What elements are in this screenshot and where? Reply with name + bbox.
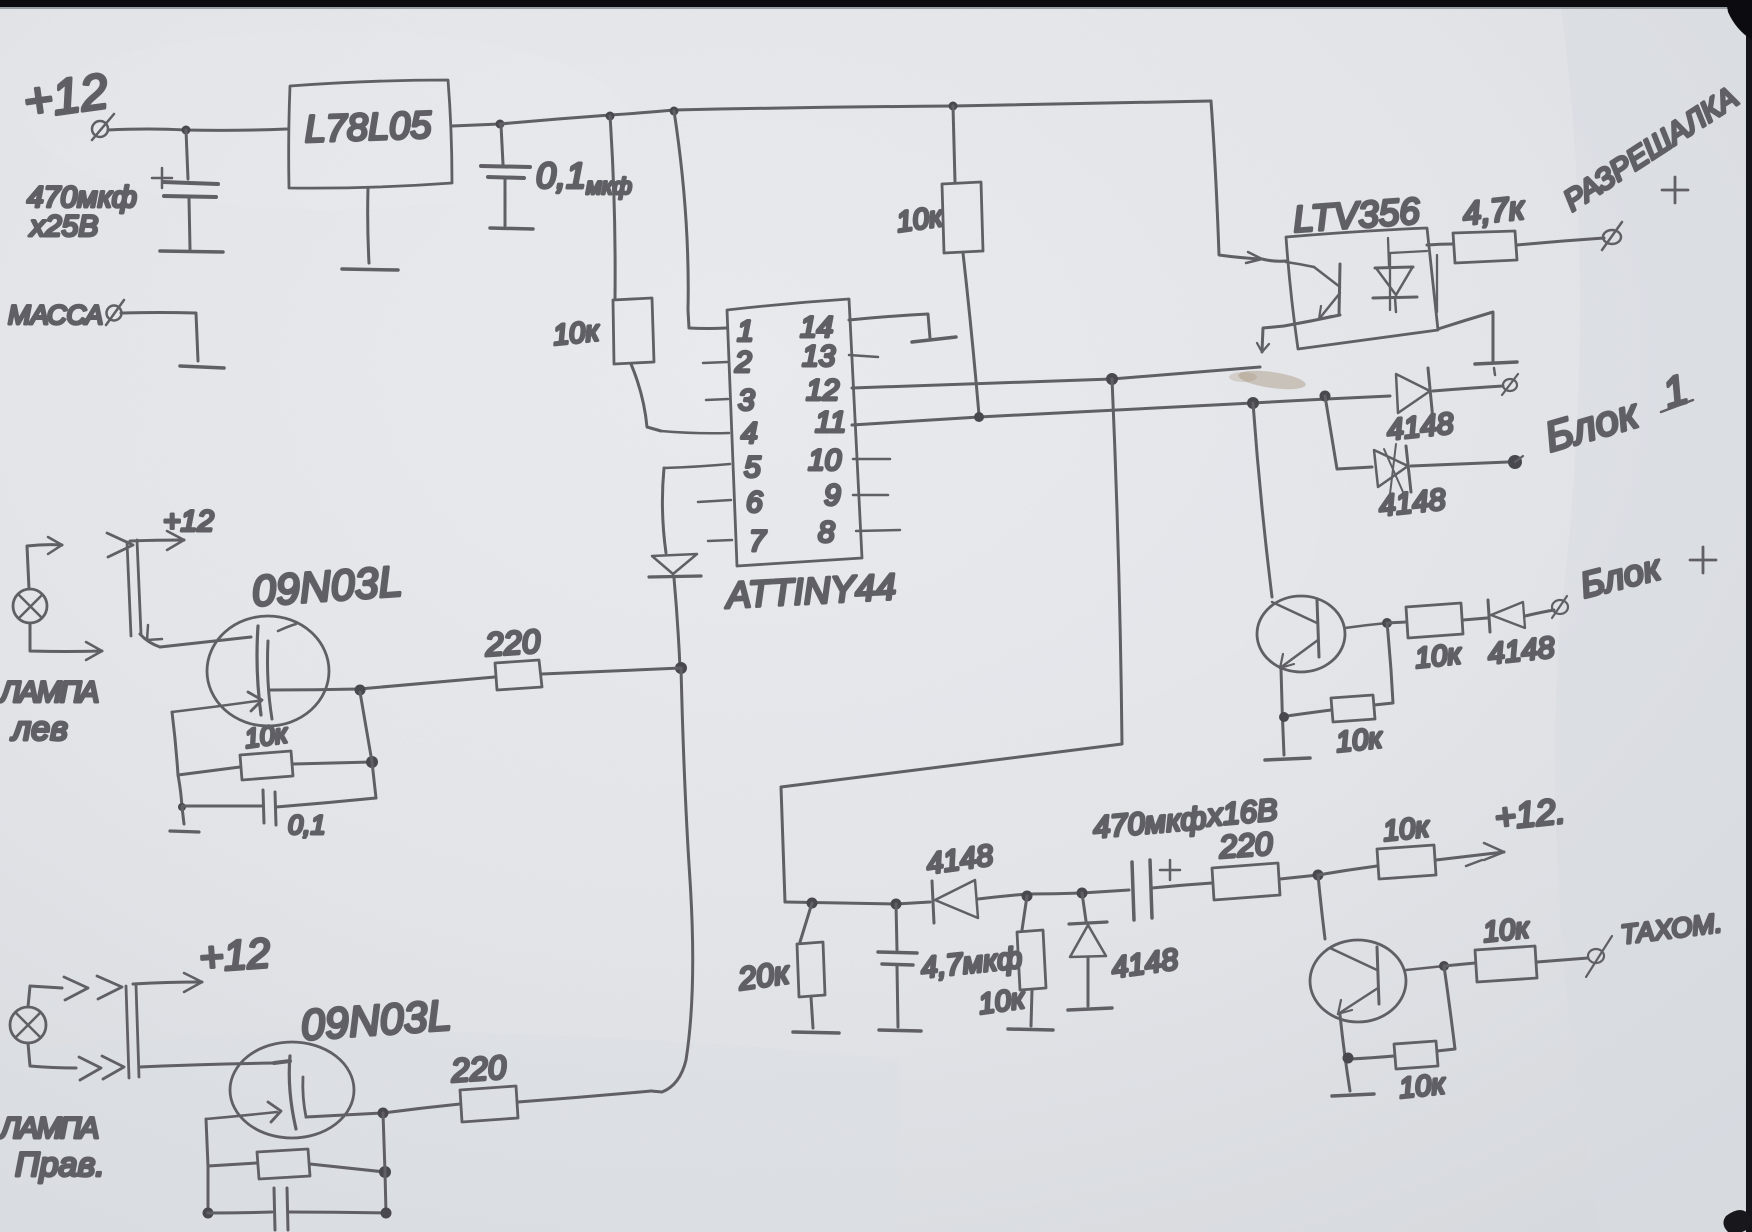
wire D2 to Блок1 terminal b — [1411, 462, 1508, 466]
svg-text:10к: 10к — [895, 201, 946, 239]
resistor R5 10к (Q1 base-emitter) — [1374, 623, 1393, 705]
lamp HL1 (left) — [13, 589, 47, 623]
svg-text:220: 220 — [1217, 825, 1274, 865]
resistor R9 10к (charge pump) — [1022, 896, 1027, 930]
wire charge pump bottom rail — [785, 902, 930, 904]
wire LTV356 top to resistor 4,7к — [1427, 244, 1453, 245]
wire lamp HL2 bottom — [28, 1043, 76, 1068]
svg-text:10: 10 — [808, 444, 842, 477]
wire regulator output to 5V rail — [452, 124, 500, 126]
connector pins (right) — [126, 985, 139, 1078]
LED inside LTV356 — [1390, 251, 1437, 312]
svg-text:4148: 4148 — [1486, 631, 1556, 671]
lamp HL2 (right) — [10, 1007, 46, 1043]
wire lamp HL2 top to connector — [28, 986, 62, 1007]
resistor R7 10к (to +12) — [1318, 866, 1377, 875]
svg-text:Прав.: Прав. — [15, 1146, 105, 1184]
scanner top edge — [0, 0, 1752, 8]
svg-text:4,7к: 4,7к — [1461, 189, 1527, 232]
transistor Q1 — [1257, 596, 1345, 672]
svg-text:10к: 10к — [1397, 1068, 1447, 1105]
svg-text:220: 220 — [483, 622, 542, 663]
wire C4 to R220 — [1152, 883, 1212, 888]
wire Q2 emitter to ground — [1340, 1015, 1350, 1091]
wire +12 terminal to regulator input — [108, 129, 287, 130]
smudge stain — [1237, 367, 1307, 392]
svg-text:4148: 4148 — [1385, 407, 1455, 447]
wire M1 gate out — [172, 712, 178, 775]
wire connector to M2 drain — [139, 1063, 276, 1067]
connector pins (left) — [127, 540, 141, 636]
svg-text:9: 9 — [824, 479, 841, 512]
svg-text:4148: 4148 — [1377, 483, 1447, 523]
svg-text:+12: +12 — [197, 929, 271, 981]
svg-text:13: 13 — [802, 340, 836, 373]
wire M1 source down to gate net — [360, 692, 376, 798]
svg-text:х25В: х25В — [28, 210, 98, 243]
wire pin12 to optocoupler — [852, 367, 1260, 388]
resistor R13 10к (M1 gate) — [178, 767, 240, 775]
resistor R1 10к (pin4 pull-up) — [610, 116, 615, 299]
scanner corner blob — [1723, 1210, 1751, 1232]
wire D4 to C4 — [978, 890, 1129, 899]
wire LED cathode to ground — [1438, 312, 1493, 361]
wire 4,7к to РАЗРЕШАЛКА terminal — [1517, 238, 1604, 245]
resistor R12 220 — [495, 660, 542, 690]
svg-text:10к: 10к — [1381, 811, 1431, 848]
diode D3 4148 — [1463, 618, 1487, 620]
ground for C1 — [160, 251, 223, 252]
wire +12 feed arrow (right lamp) — [133, 982, 202, 984]
capacitor C7 — [207, 1166, 210, 1213]
svg-text:2: 2 — [734, 346, 752, 379]
svg-text:10к: 10к — [1481, 912, 1531, 949]
node ТАХОМ terminal — [1586, 936, 1612, 977]
wire LTV356 emitter down to pin12 wire — [1262, 315, 1340, 352]
svg-text:мкф: мкф — [586, 173, 632, 199]
svg-text:20к: 20к — [735, 954, 793, 997]
svg-text:0,1: 0,1 — [536, 155, 586, 196]
ground M1 gate net — [182, 807, 184, 824]
svg-text:МАССА: МАССА — [8, 300, 103, 330]
svg-text:10к: 10к — [1413, 638, 1463, 675]
wire M2 gate out — [206, 1119, 208, 1166]
resistor R14 220 — [460, 1086, 518, 1122]
wire lamp HL1 bottom — [30, 623, 102, 652]
svg-text:L78L05: L78L05 — [304, 105, 433, 151]
ground pin of L78L05 — [368, 188, 369, 263]
wire МАССА to ground — [121, 313, 198, 362]
wire +12 junction down to Q2 collector — [1318, 875, 1325, 939]
transistor Q2 — [1310, 940, 1406, 1022]
capacitor C2 0,1мкф — [501, 125, 503, 164]
svg-text:6: 6 — [746, 486, 763, 519]
svg-text:8: 8 — [818, 516, 835, 549]
svg-text:3: 3 — [738, 384, 755, 417]
wire D1 to Блок1 terminal a — [1433, 386, 1503, 391]
svg-text:7: 7 — [749, 525, 767, 558]
node РАЗРЕШАЛКА terminal — [1602, 222, 1622, 250]
resistor R4 10к (Q1 base) — [1387, 622, 1406, 623]
svg-text:10к: 10к — [977, 983, 1028, 1021]
wire D3 to Блок+ terminal — [1525, 610, 1554, 616]
resistor R11 10к (Q2 base-emitter) — [1437, 966, 1455, 1051]
wire junction down to Q1 collector — [1253, 403, 1272, 597]
wire pin12 junction down to charge pump — [781, 379, 1122, 902]
node 5V junction at C2 — [496, 120, 505, 129]
capacitor C5 4,7мкф — [896, 904, 897, 950]
wire pin11 to diodes — [852, 396, 1390, 425]
svg-text:220: 220 — [449, 1048, 508, 1089]
wire junction to diode D2 — [1325, 396, 1372, 469]
resistor R2 10к (pin11 net) — [953, 106, 955, 182]
capacitor C6 0,1 — [178, 775, 182, 807]
svg-text:11: 11 — [815, 406, 846, 439]
svg-text:10к: 10к — [551, 315, 601, 352]
resistor R15 10к (M2 gate) — [208, 1163, 257, 1166]
wire lamp HL1 top to connector — [27, 545, 62, 589]
diode D2 4148 — [1374, 450, 1408, 487]
wire pin1 VCC — [674, 111, 726, 329]
wire connector to M1 drain — [140, 634, 160, 647]
svg-text:+12: +12 — [20, 63, 112, 130]
wire R6 to +12 junction — [1280, 875, 1318, 879]
diode D4 4148 — [932, 881, 934, 923]
diode D5 4148 (clamp) — [1082, 893, 1086, 921]
wire M2 source to 220 — [306, 1104, 460, 1117]
wire pin5 long vertical — [662, 468, 666, 553]
resistor R10 10к (ТАХОМ) — [1444, 963, 1475, 966]
svg-text:10к: 10к — [243, 718, 291, 754]
svg-text:10к: 10к — [1334, 722, 1384, 759]
wire pin14 to ground — [849, 314, 930, 338]
svg-text:0,1: 0,1 — [288, 810, 326, 840]
svg-text:12: 12 — [806, 374, 840, 407]
scanner right edge — [1746, 0, 1752, 1232]
svg-text:5: 5 — [744, 451, 761, 484]
wire 5V rail right corner down to optocoupler — [1211, 101, 1262, 259]
svg-text:4: 4 — [741, 417, 758, 450]
wire 5V rail — [500, 101, 1211, 124]
svg-text:ЛАМПА: ЛАМПА — [0, 676, 98, 709]
capacitor C4 470мкф x16В — [1132, 862, 1134, 920]
regulator U2 L78L05 — [289, 80, 452, 188]
svg-text:ЛАМПА: ЛАМПА — [0, 1112, 98, 1145]
phototransistor inside LTV356 — [1286, 262, 1314, 267]
wire Q1 emitter to ground — [1281, 669, 1284, 755]
wire M1 source to 220 — [359, 677, 495, 689]
connector arrows left lamp — [107, 533, 133, 557]
capacitor C1 470мкф x25В — [152, 168, 172, 188]
resistor R8 20к — [800, 903, 812, 942]
svg-text:+12.: +12. — [1493, 790, 1568, 838]
wire R14 to pin5 net hook — [518, 1091, 651, 1102]
wire M2 source down — [383, 1113, 386, 1213]
resistor R3 4,7к — [1453, 231, 1517, 263]
diode D6 on pin5 wire — [652, 554, 697, 574]
svg-text:лев: лев — [10, 710, 68, 748]
wire R12 to pin5 net — [542, 668, 681, 674]
IC U1 ATTINY44 — [727, 299, 862, 566]
resistor R6 220 — [1212, 863, 1280, 900]
svg-text:1: 1 — [737, 315, 754, 348]
diode D1 4148 — [1396, 374, 1430, 413]
